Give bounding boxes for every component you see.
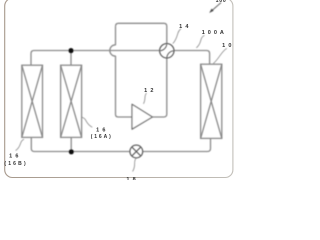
svg-text:16: 16 — [96, 128, 109, 134]
svg-text:100: 100 — [216, 0, 227, 4]
svg-text:14: 14 — [179, 24, 192, 30]
svg-text:10: 10 — [222, 43, 235, 49]
svg-text:16: 16 — [9, 154, 22, 160]
svg-text:100A: 100A — [202, 30, 227, 36]
svg-text:18: 18 — [126, 177, 139, 180]
svg-text:(16A): (16A) — [91, 134, 113, 140]
svg-text:12: 12 — [144, 88, 157, 94]
svg-text:(16B): (16B) — [4, 161, 28, 167]
